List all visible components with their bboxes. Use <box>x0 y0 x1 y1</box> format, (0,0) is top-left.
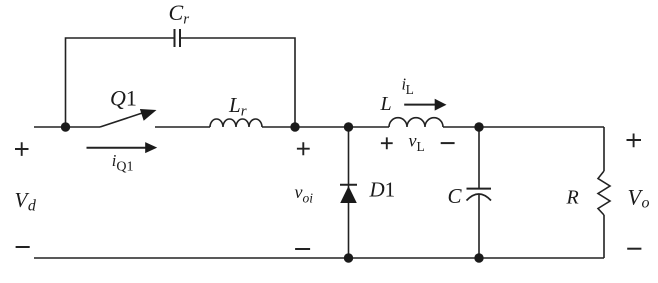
svg-text:Q1: Q1 <box>110 86 137 111</box>
svg-text:L: L <box>380 93 392 115</box>
svg-text:C: C <box>448 184 463 208</box>
svg-text:R: R <box>566 187 579 209</box>
svg-text:D1: D1 <box>369 178 396 202</box>
